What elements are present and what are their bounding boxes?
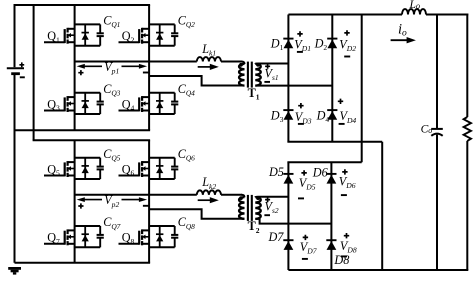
wire: output positive rail	[288, 14, 402, 16]
wire: input positive top rail	[14, 4, 151, 6]
label Vs1 minus	[264, 81, 270, 83]
wire: Co branch upper lead	[436, 15, 438, 129]
inductor Lk2	[197, 190, 221, 194]
resistor RL (load)	[464, 117, 471, 141]
wire: T1 secondary bottom to rectifier1 right rail	[255, 85, 332, 87]
diode D1	[283, 39, 293, 49]
svg-text:D6: D6	[312, 166, 329, 180]
body diode of Q1	[82, 24, 89, 45]
label VD2 minus	[344, 56, 350, 58]
wire: rectifier1 bottom rail	[287, 141, 382, 143]
label VD1 minus	[297, 51, 303, 53]
svg-text:Lo: Lo	[409, 0, 421, 11]
capacitor Co	[431, 129, 443, 136]
capacitor CQ2	[171, 24, 178, 45]
diode D7	[283, 240, 293, 250]
label VD1 plus	[297, 31, 302, 36]
body diode of Q2	[156, 24, 163, 45]
wire: load resistor upper lead	[466, 14, 468, 118]
capacitor CQ4	[171, 93, 178, 114]
label VD6 plus	[342, 169, 347, 174]
label Vs2 plus	[265, 197, 270, 202]
transformer T2 secondary dot	[256, 196, 260, 200]
transformer T2 secondary winding	[255, 197, 260, 219]
label VD3 minus	[298, 123, 304, 125]
current arrow under Lk1	[198, 66, 211, 68]
diode D3	[283, 110, 293, 120]
transformer T1 secondary winding	[255, 64, 260, 86]
svg-text:D7: D7	[268, 230, 285, 244]
label battery plus	[19, 62, 24, 67]
label VD2 plus	[344, 30, 349, 35]
diode D8	[326, 240, 336, 250]
inductor Lo	[402, 9, 426, 14]
wire: lower bridge top rail	[33, 139, 151, 141]
diode D6	[326, 174, 336, 184]
diode D2	[327, 39, 337, 49]
wire: Co branch lower lead	[436, 135, 438, 270]
capacitor CQ3	[97, 93, 104, 114]
body diode of Q8	[156, 226, 163, 247]
ground	[8, 268, 21, 273]
body diode of Q4	[156, 93, 163, 114]
wire: rectifier1 negative link down to output return	[381, 142, 383, 270]
svg-text:D8: D8	[333, 253, 349, 267]
wire: T2 secondary bottom jog to rectifier2 right rail	[255, 219, 331, 224]
wire: T1 secondary top to rectifier1 left rail	[255, 63, 288, 65]
label Vp1 annotation arrows	[77, 64, 148, 69]
battery Vin positive lead wire	[14, 4, 16, 67]
transistor Q5	[44, 158, 100, 179]
wire: Lk1 to transformer T1 primary top	[221, 61, 242, 63]
label VD7 plus	[303, 235, 308, 240]
transformer T1 primary winding	[239, 64, 244, 86]
body diode of Q3	[82, 93, 89, 114]
label Vp2 plus	[78, 203, 83, 208]
wire: load resistor lower lead	[466, 141, 468, 270]
transformer T1 core	[248, 62, 252, 88]
wire: output bottom rail	[288, 269, 468, 271]
transistor Q7	[44, 226, 100, 247]
wire: Lk2 to transformer T2 primary top	[221, 194, 242, 196]
wire: rectifier2 top rail	[287, 161, 361, 163]
battery Vin	[7, 68, 24, 74]
label VD8 plus	[344, 233, 349, 238]
wire: upper bridge right leg	[148, 5, 150, 130]
label Vs1 plus	[265, 64, 270, 69]
label VD4 plus	[338, 99, 343, 104]
wire: rectifier2 left rail	[287, 162, 289, 270]
transformer T1 primary dot	[239, 63, 243, 67]
wire: rectifier2 positive link up to output node	[361, 15, 363, 163]
diode D5	[283, 174, 293, 184]
wire: Lo to load top	[426, 14, 468, 16]
wire: rectifier1 left rail	[287, 15, 289, 142]
svg-text:D5: D5	[268, 165, 284, 179]
current arrow under Lk2	[198, 199, 211, 201]
wire: rectifier2 right rail	[330, 162, 332, 270]
wire: upper bridge bottom rail	[15, 129, 151, 131]
capacitor CQ1	[97, 24, 104, 45]
label Vs2 minus	[264, 214, 270, 216]
transformer T2 primary dot	[239, 196, 243, 200]
label Vp2 minus	[143, 205, 149, 207]
wire: upper bridge left leg	[74, 5, 76, 130]
label VD7 minus	[302, 258, 308, 260]
body diode of Q5	[82, 158, 89, 179]
label VD5 plus	[301, 170, 306, 175]
transformer T2 primary winding	[239, 197, 244, 219]
label Vp1 plus	[78, 70, 83, 75]
capacitor CQ7	[97, 226, 104, 247]
body diode of Q6	[156, 158, 163, 179]
label VD4 minus	[339, 123, 345, 125]
transistor Q1	[44, 24, 100, 45]
label VD6 minus	[341, 194, 347, 196]
label VD8 minus	[341, 255, 347, 257]
wire: T2 secondary top to rectifier2 left rail	[255, 196, 288, 198]
battery negative lead wire	[14, 75, 16, 263]
capacitor CQ5	[97, 158, 104, 179]
transistor Q2	[119, 24, 175, 45]
body diode of Q7	[82, 226, 89, 247]
label Vp2 annotation arrows	[77, 197, 148, 202]
transistor Q8	[119, 226, 175, 247]
wire: node B1 to transformer T1 primary bottom	[149, 76, 244, 86]
transistor Q4	[119, 93, 175, 114]
label VD3 plus	[298, 103, 303, 108]
inductor Lk1	[197, 57, 221, 61]
transistor Q6	[119, 158, 175, 179]
transformer T1 secondary dot	[256, 63, 260, 67]
current arrow io	[391, 37, 416, 43]
capacitor CQ8	[171, 226, 178, 247]
label battery minus	[20, 76, 25, 78]
label Vp1 minus	[143, 72, 149, 74]
wire: node B2 to transformer T2 primary bottom	[149, 209, 244, 219]
diode D4	[327, 110, 337, 120]
wire: lower bridge right leg	[148, 140, 150, 263]
label VD5 minus	[298, 197, 304, 199]
wire: lower bridge left leg	[74, 140, 76, 263]
wire: lower bridge bottom rail	[15, 262, 151, 264]
transformer T2 core	[248, 195, 252, 221]
transistor Q3	[44, 93, 100, 114]
wire: node A1 to Lk1	[75, 61, 197, 63]
capacitor CQ6	[171, 158, 178, 179]
wire: rectifier1 right rail	[331, 15, 333, 142]
wire: node A2 to Lk2	[75, 194, 197, 196]
wire: feed to lower bridge (vertical)	[33, 4, 35, 140]
